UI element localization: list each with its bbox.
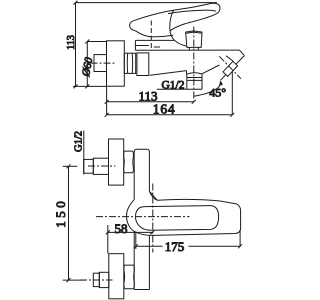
nut xyxy=(124,53,135,73)
svg-text:45°: 45° xyxy=(209,85,226,99)
tick 113h left xyxy=(105,100,109,104)
diverter knob top face line xyxy=(186,32,201,33)
bottom inlet centerline xyxy=(80,279,113,281)
bottom inlet pipe rect xyxy=(99,272,109,287)
body top edge xyxy=(135,49,239,51)
ext 175 right vertical xyxy=(239,230,241,246)
svg-text:Ø60: Ø60 xyxy=(80,56,95,78)
tick 175 right xyxy=(238,244,242,248)
top escutcheon rect xyxy=(109,139,124,185)
handle underside left xyxy=(135,31,173,37)
tick 113v bottom xyxy=(74,84,78,88)
dimension 113 horizontal line xyxy=(107,101,194,103)
handle lever top edge and grip end xyxy=(133,3,220,31)
wall flange rect xyxy=(107,41,125,86)
elbow axis dash-dot xyxy=(219,56,241,79)
top union nut xyxy=(124,151,134,173)
tick 164 right xyxy=(230,113,234,117)
nut facet lines xyxy=(127,53,132,73)
front body outline xyxy=(134,149,149,199)
body 45 corner edge xyxy=(240,50,245,55)
tick 164 left xyxy=(105,113,109,117)
spout vertical centerline xyxy=(152,184,154,253)
cartridge centerline dashed xyxy=(150,21,152,51)
cartridge rim tick right xyxy=(154,46,160,48)
handle nose cap xyxy=(130,21,136,31)
handle inner edge line xyxy=(168,10,216,13)
svg-text:150: 150 xyxy=(53,198,68,228)
top inlet pipe rect xyxy=(93,158,108,174)
body chamfer diagonal upper xyxy=(236,56,244,65)
cartridge dome top edge xyxy=(135,39,174,41)
bottom inlet cap rect xyxy=(93,273,99,286)
spout outer outline xyxy=(127,191,241,235)
svg-text:164: 164 xyxy=(153,102,176,117)
dimension 175 line left part xyxy=(136,245,163,247)
ext line 58 left vertical xyxy=(107,225,109,254)
dimension 164 line xyxy=(107,114,233,116)
tick 113v top xyxy=(74,1,78,5)
shower elbow pipe edge xyxy=(226,56,233,61)
front body left edge lower xyxy=(133,231,135,290)
body neck rect xyxy=(137,53,149,76)
extension line wall vertical xyxy=(106,86,108,115)
tick 150 bottom xyxy=(67,278,71,282)
outlet axis dash-dot xyxy=(193,27,195,102)
handle back edge curve xyxy=(170,10,187,46)
spout top elbow curve xyxy=(149,191,157,200)
svg-text:G1/2: G1/2 xyxy=(73,131,84,152)
escutcheon rect xyxy=(94,55,107,72)
shower elbow nut xyxy=(223,61,238,76)
top inlet cap rect xyxy=(84,159,94,173)
body bottom edge left xyxy=(150,71,187,76)
G1/2 leader line vertical xyxy=(83,131,85,175)
arc 45 degrees xyxy=(194,81,221,96)
tick 150 top xyxy=(67,164,71,168)
tick 58 left xyxy=(106,230,110,234)
ext 175 left vertical xyxy=(135,232,137,250)
extension line bottom (flange bottom) xyxy=(73,85,107,87)
body bottom edge right xyxy=(202,65,219,74)
arrowhead 45 arc xyxy=(219,81,223,87)
dimension 150 line xyxy=(68,166,70,280)
dimension 58 xyxy=(108,231,153,233)
tick 58 right xyxy=(150,230,154,234)
front body bottom edge xyxy=(134,289,149,291)
body chamfer diagonal lower xyxy=(221,75,226,81)
extension line Ø60 top xyxy=(87,41,106,43)
extension line right of elbow xyxy=(231,66,233,115)
dimension 113 vertical line xyxy=(75,3,77,87)
extension line top (handle top) xyxy=(76,2,217,4)
extension line bottom inlet xyxy=(63,279,86,281)
tick Ø60 bottom xyxy=(85,84,89,88)
dimension Ø60 line xyxy=(86,42,88,87)
svg-text:58: 58 xyxy=(115,221,128,236)
escutcheon centerline dash-dot xyxy=(91,62,117,64)
tick 175 left xyxy=(134,244,138,248)
tick 113h right xyxy=(192,100,196,104)
bottom escutcheon rect xyxy=(109,254,124,299)
svg-text:113: 113 xyxy=(66,35,77,50)
dimension 175 line right part xyxy=(189,245,241,247)
top inlet centerline xyxy=(88,165,116,167)
outlet underline to G1/2 text xyxy=(157,88,187,90)
front body right edge lower xyxy=(148,236,150,290)
spout inner capsule xyxy=(136,206,219,231)
bottom union nut xyxy=(124,265,134,289)
diverter knob neck xyxy=(189,47,198,50)
svg-text:G1/2: G1/2 xyxy=(162,79,185,91)
spout horizontal centerline xyxy=(96,216,190,218)
shower outlet connector G1/2 xyxy=(187,71,203,90)
tick Ø60 top xyxy=(85,40,89,44)
cartridge dome rim line xyxy=(135,45,149,47)
diverter knob xyxy=(186,31,202,48)
extension line top inlet xyxy=(63,165,78,167)
cartridge dome left edge xyxy=(134,40,136,50)
svg-text:175: 175 xyxy=(165,239,185,254)
